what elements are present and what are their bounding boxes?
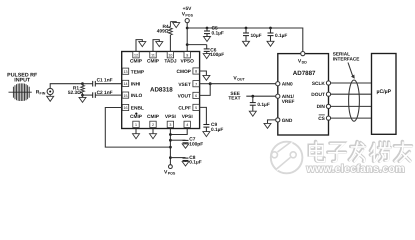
svg-text:C2 1nF: C2 1nF (97, 90, 113, 96)
pin 12 CMIP (133, 52, 139, 58)
log amp U1 AD8318 body (122, 52, 200, 129)
svg-text:TEXT: TEXT (228, 96, 240, 102)
wire VPOS to pin9 VPSO (186, 23, 188, 52)
svg-text:DOUT: DOUT (311, 92, 325, 98)
svg-text:INLO: INLO (131, 93, 143, 99)
pin DOUT (326, 92, 330, 96)
svg-text:CMIP: CMIP (130, 114, 143, 120)
capacitor C2 (83, 94, 93, 96)
pin 4 VPSI (184, 121, 190, 127)
svg-text:VPSI: VPSI (165, 114, 177, 120)
wire pin6 VOUT to junction (200, 84, 211, 96)
svg-text:5: 5 (195, 106, 197, 110)
node input bottom (81, 94, 84, 97)
pin 14 INHI (122, 80, 128, 86)
svg-text:POS: POS (168, 172, 176, 176)
RF source connector (47, 88, 53, 94)
svg-text:1: 1 (135, 123, 137, 127)
wire pin7 VSET (200, 83, 211, 85)
svg-text:VREF: VREF (282, 99, 295, 105)
svg-text:FIN: FIN (40, 91, 46, 95)
wire VOUT rail to AIN0 (210, 83, 276, 85)
ground under R1 (82, 95, 84, 97)
svg-text:0.1µF: 0.1µF (275, 33, 287, 39)
wire SEE TEXT net to AIN1 (246, 95, 275, 97)
svg-text:CMIP: CMIP (130, 59, 143, 65)
ground under source (49, 95, 51, 97)
wire SCLK to uC (331, 82, 372, 84)
ground pin12 (139, 42, 146, 47)
pin CS (326, 116, 330, 120)
svg-text:10: 10 (168, 54, 172, 58)
svg-text:VSET: VSET (178, 82, 191, 88)
label RFIN (36, 89, 46, 95)
node C7 tap (169, 139, 172, 142)
svg-text:14: 14 (124, 82, 128, 86)
wire pin2 to ground (152, 129, 154, 134)
svg-text:TADJ: TADJ (164, 59, 177, 65)
node C6 tap (186, 43, 189, 46)
svg-text:INTERFACE: INTERFACE (333, 56, 360, 61)
label SERIAL INTERFACE (333, 52, 360, 62)
resistor R1 (81, 84, 85, 95)
svg-text:11: 11 (151, 54, 155, 58)
svg-text:7: 7 (195, 82, 197, 86)
pin 15 INLO (122, 92, 128, 98)
svg-text:DIN: DIN (317, 104, 326, 110)
wire pin10 TADJ to R4 (169, 35, 171, 52)
svg-text:OUT: OUT (237, 78, 245, 82)
wire DIN to uC (331, 105, 372, 107)
capacitor C7 (170, 139, 185, 141)
pin GND (276, 118, 280, 122)
svg-text:100pF: 100pF (189, 141, 203, 147)
wire pin1 to ground (135, 129, 137, 134)
svg-text:10µF: 10µF (251, 33, 262, 39)
pin 16 ENBL (122, 104, 128, 110)
svg-text:POS: POS (185, 14, 193, 18)
svg-text:µC/µP: µC/µP (376, 89, 391, 95)
svg-text:9: 9 (186, 54, 188, 58)
watermark logo (271, 142, 303, 175)
svg-text:VOUT: VOUT (178, 94, 191, 100)
svg-text:0.1µF: 0.1µF (211, 127, 223, 133)
node pin4 join (169, 133, 172, 136)
svg-text:AIN0: AIN0 (282, 82, 293, 88)
wire R4 to ground (170, 22, 176, 23)
pin 6 VOUT (193, 92, 199, 98)
svg-text:499Ω: 499Ω (157, 29, 169, 35)
svg-text:CMIP: CMIP (147, 114, 160, 120)
ADC U2 AD7887 body (278, 54, 329, 135)
capacitor C1 (83, 83, 93, 85)
capacitor C8 (170, 157, 185, 159)
capacitor 0.1uF rail (269, 27, 272, 30)
supply terminal VPOS bottom (169, 165, 173, 169)
pulsed RF input label (7, 73, 38, 84)
wire pin11 to ground (153, 40, 159, 52)
pin 5 CLPF (193, 104, 199, 110)
svg-text:VPSI: VPSI (182, 114, 194, 120)
svg-text:DD: DD (302, 61, 308, 65)
svg-text:CLPF: CLPF (178, 106, 191, 112)
svg-text:AD8318: AD8318 (150, 87, 173, 94)
pin AIN0 (276, 82, 280, 86)
svg-text:C1 1nF: C1 1nF (97, 77, 113, 83)
node supply rail (186, 27, 189, 30)
wire pin4 to column (170, 129, 187, 135)
pin VDD (301, 52, 305, 56)
svg-text:CMIP: CMIP (147, 59, 160, 65)
wire pin3 VPSI supply column (169, 129, 171, 165)
wire GND to ground (268, 120, 276, 124)
svg-text:0.1µF: 0.1µF (189, 159, 201, 165)
svg-text:GND: GND (282, 118, 293, 124)
capacitor C9 (203, 124, 209, 126)
pin 3 VPSI (167, 121, 173, 127)
pin 10 TADJ (167, 52, 173, 58)
node VSET/VOUT junction (209, 82, 212, 85)
node ENBL tap (169, 146, 172, 149)
wire DOUT to uC (331, 93, 372, 95)
svg-text:3: 3 (169, 123, 171, 127)
svg-text:16: 16 (124, 106, 128, 110)
svg-text:0.1µF: 0.1µF (212, 30, 224, 36)
microprocessor box uC/uP (372, 54, 397, 135)
capacitor 0.1uF AIN1 (252, 96, 254, 102)
svg-text:12: 12 (134, 54, 138, 58)
svg-text:0.1µF: 0.1µF (257, 102, 269, 108)
pin DIN (326, 104, 330, 108)
RF burst waveform (9, 83, 32, 101)
pin 9 VPSO (184, 52, 190, 58)
pin 7 VSET (193, 81, 199, 87)
label VOUT (233, 75, 245, 81)
label SEE TEXT (228, 91, 240, 102)
svg-text:TEMP: TEMP (131, 69, 145, 75)
svg-text:INPUT: INPUT (14, 77, 31, 83)
svg-text:CS: CS (318, 116, 325, 122)
wire ENBL to supply column (105, 108, 170, 148)
resistor R4 (169, 22, 173, 35)
svg-text:52.3Ω: 52.3Ω (68, 90, 81, 96)
capacitor C5 (206, 27, 209, 30)
pin 13 TEMP (122, 68, 128, 74)
svg-text:2: 2 (152, 123, 154, 127)
capacitor 10uF rail (245, 27, 248, 30)
wire CS to uC (331, 117, 372, 119)
svg-text:SCLK: SCLK (312, 81, 326, 87)
svg-text:13: 13 (124, 70, 128, 74)
serial interface ellipse (349, 80, 360, 121)
svg-text:100pF: 100pF (210, 52, 224, 58)
svg-text:8: 8 (195, 70, 197, 74)
wire supply rail to AD7887 VDD (187, 28, 303, 52)
pin 11 CMIP (150, 52, 156, 58)
svg-text:ENBL: ENBL (131, 106, 144, 112)
svg-text:CMOP: CMOP (176, 69, 191, 75)
pin 1 marker dot (135, 113, 137, 115)
capacitor C6 (187, 44, 207, 46)
wire pin8 CMOP to ground (200, 71, 207, 75)
svg-text:www.elecfans.com: www.elecfans.com (306, 163, 405, 175)
supply terminal +5V VPOS (182, 6, 194, 18)
svg-text:6: 6 (195, 94, 197, 98)
ground pin11 (156, 42, 163, 47)
pin 8 CMOP (193, 68, 199, 74)
ground R4 (173, 23, 180, 28)
node C8 tap (169, 156, 172, 159)
wire source to input node (50, 84, 82, 89)
svg-text:AD7887: AD7887 (293, 70, 316, 77)
pin 2 CMIP (150, 121, 156, 127)
arrow label to ellipse (348, 63, 353, 77)
CS overline (319, 114, 325, 116)
pin 1 CMIP (133, 121, 139, 127)
node AIN1 cap tap (251, 95, 254, 98)
pin AIN1/VREF (276, 94, 280, 98)
svg-text:4: 4 (186, 123, 188, 127)
pin SCLK (326, 81, 330, 85)
svg-text:INHI: INHI (131, 82, 141, 88)
svg-text:15: 15 (124, 94, 128, 98)
node input top (81, 82, 84, 85)
wire pin5 CLPF to C9 (200, 107, 207, 124)
wire pin12 to ground (136, 40, 142, 52)
svg-text:VPSO: VPSO (181, 59, 195, 65)
